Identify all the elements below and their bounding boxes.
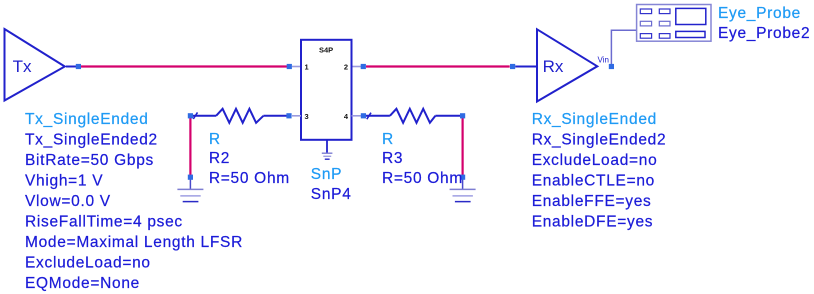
svg-text:2: 2 xyxy=(344,63,348,72)
svg-text:R=50 Ohm: R=50 Ohm xyxy=(382,170,463,187)
svg-text:Vhigh=1 V: Vhigh=1 V xyxy=(25,172,103,189)
svg-text:BitRate=50 Gbps: BitRate=50 Gbps xyxy=(25,152,154,169)
svg-text:SnP4: SnP4 xyxy=(311,186,352,203)
svg-text:EQMode=None: EQMode=None xyxy=(25,275,140,292)
svg-text:Eye_Probe2: Eye_Probe2 xyxy=(718,25,810,42)
svg-text:Tx: Tx xyxy=(13,57,32,76)
svg-text:Mode=Maximal Length LFSR: Mode=Maximal Length LFSR xyxy=(25,234,243,251)
svg-text:SnP: SnP xyxy=(311,166,342,183)
svg-text:Tx_SingleEnded: Tx_SingleEnded xyxy=(25,111,149,128)
svg-text:R: R xyxy=(382,131,394,148)
svg-text:EnableDFE=yes: EnableDFE=yes xyxy=(532,214,654,231)
svg-text:R3: R3 xyxy=(382,150,403,167)
svg-text:ExcludeLoad=no: ExcludeLoad=no xyxy=(532,152,658,169)
svg-text:S4P: S4P xyxy=(319,46,333,55)
svg-text:RiseFallTime=4 psec: RiseFallTime=4 psec xyxy=(25,213,183,230)
svg-text:Rx: Rx xyxy=(543,57,564,76)
svg-text:EnableCTLE=no: EnableCTLE=no xyxy=(532,173,655,190)
svg-text:R=50 Ohm: R=50 Ohm xyxy=(209,170,290,187)
svg-text:R2: R2 xyxy=(209,150,230,167)
svg-text:Vlow=0.0 V: Vlow=0.0 V xyxy=(25,193,111,210)
svg-text:R: R xyxy=(209,131,221,148)
svg-text:1: 1 xyxy=(305,63,309,72)
svg-text:3: 3 xyxy=(305,112,309,121)
svg-text:Rx_SingleEnded: Rx_SingleEnded xyxy=(532,111,657,128)
svg-text:ExcludeLoad=no: ExcludeLoad=no xyxy=(25,254,151,271)
svg-text:Tx_SingleEnded2: Tx_SingleEnded2 xyxy=(25,132,158,149)
svg-text:4: 4 xyxy=(344,112,349,121)
svg-text:Eye_Probe: Eye_Probe xyxy=(718,5,801,22)
svg-text:Rx_SingleEnded2: Rx_SingleEnded2 xyxy=(532,132,667,149)
svg-text:EnableFFE=yes: EnableFFE=yes xyxy=(532,193,652,210)
svg-text:Vin: Vin xyxy=(598,56,609,65)
